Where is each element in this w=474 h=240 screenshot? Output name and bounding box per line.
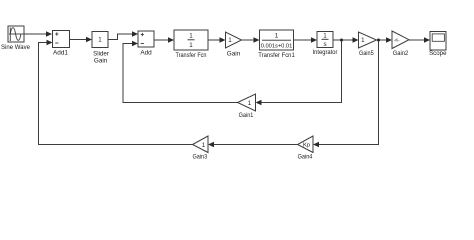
svg-text:Add: Add bbox=[140, 49, 152, 56]
svg-text:Kp: Kp bbox=[303, 143, 310, 149]
svg-text:Slider: Slider bbox=[93, 50, 110, 57]
svg-text:Transfer Fcn: Transfer Fcn bbox=[176, 52, 207, 59]
svg-text:Gain1: Gain1 bbox=[239, 112, 254, 119]
svg-text:1: 1 bbox=[189, 32, 193, 39]
svg-text:Gain5: Gain5 bbox=[359, 50, 374, 57]
svg-text:Gain: Gain bbox=[94, 57, 108, 64]
svg-text:-K-: -K- bbox=[394, 38, 400, 43]
svg-text:1: 1 bbox=[189, 42, 193, 49]
svg-text:Gain: Gain bbox=[227, 50, 241, 57]
svg-text:Gain3: Gain3 bbox=[192, 153, 207, 160]
svg-text:1: 1 bbox=[361, 37, 365, 44]
svg-text:Add1: Add1 bbox=[53, 49, 68, 56]
svg-text:1: 1 bbox=[248, 100, 252, 107]
svg-text:1: 1 bbox=[323, 32, 327, 39]
svg-text:Gain4: Gain4 bbox=[298, 153, 313, 160]
svg-text:Scope: Scope bbox=[429, 50, 447, 57]
svg-text:1: 1 bbox=[98, 37, 102, 44]
svg-text:s: s bbox=[323, 41, 326, 48]
svg-text:Sine Wave: Sine Wave bbox=[1, 44, 30, 51]
svg-text:Transfer Fcn1: Transfer Fcn1 bbox=[258, 52, 295, 59]
svg-text:1: 1 bbox=[202, 142, 206, 149]
svg-text:Integrator: Integrator bbox=[313, 49, 339, 56]
svg-text:1: 1 bbox=[228, 37, 232, 44]
svg-text:Gain2: Gain2 bbox=[393, 50, 409, 57]
svg-text:1: 1 bbox=[275, 33, 279, 40]
svg-text:0.001s+0.01: 0.001s+0.01 bbox=[261, 43, 293, 49]
